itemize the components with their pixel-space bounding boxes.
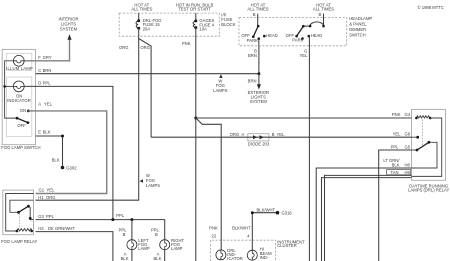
splice PPL bus to left fog lamp (130, 218, 133, 221)
splice on PNK wire (194, 117, 197, 120)
I/P fuse block (dashed box) (119, 13, 219, 36)
svg-text:PNK: PNK (182, 41, 191, 46)
svg-text:YEL: YEL (277, 132, 286, 137)
svg-text:TEST OR START: TEST OR START (178, 7, 211, 12)
ground G302 (61, 166, 78, 171)
svg-text:LAMP: LAMP (171, 246, 183, 251)
svg-text:PNK: PNK (392, 112, 401, 117)
instrument cluster (dashed box, cut at bottom edge) (210, 239, 305, 261)
wire PNK branch to instrument cluster pin 22 (196, 118, 221, 240)
svg-text:ORG: ORG (140, 45, 150, 50)
wire LT GRN/BLK H8 from DRL relay down page (316, 158, 411, 261)
label HOT AT ALL TIMES (dimmer left feed) (247, 2, 268, 11)
svg-text:HEAD: HEAD (311, 33, 323, 38)
svg-text:CLUSTER: CLUSTER (277, 243, 297, 248)
fuse DRL-FOG FUSE 15 20A (136, 13, 162, 32)
wire feed stub into dimmer switch right, pin B (319, 12, 324, 26)
svg-text:ICATOR: ICATOR (227, 256, 242, 261)
dimmer switch left section: OFF/PARK/HEAD contacts and arm (241, 25, 277, 43)
svg-text:BRN: BRN (43, 68, 52, 73)
svg-text:TAN: TAN (390, 170, 398, 175)
svg-text:PPL: PPL (43, 81, 52, 86)
svg-text:BLK/WHT: BLK/WHT (232, 226, 251, 231)
dimmer switch right section: OFF/PARK/HEAD contacts, arm and crossover loop (286, 22, 325, 43)
label HOT AT ALL TIMES (dimmer right feed) (313, 2, 334, 11)
svg-text:F: F (38, 55, 41, 60)
svg-text:B: B (272, 132, 275, 137)
left fog lamp (127, 238, 150, 251)
wire PPL G5 from DRL relay down page (379, 144, 412, 261)
svg-text:YEL: YEL (47, 188, 56, 193)
svg-text:10A: 10A (199, 27, 207, 32)
svg-text:B: B (123, 232, 126, 237)
fog lamp relay switch contacts (17, 205, 32, 220)
wire feed stub into dimmer switch left, pin B (253, 12, 258, 26)
svg-text:22: 22 (212, 234, 217, 239)
svg-text:G8: G8 (405, 131, 411, 136)
svg-text:HEADLAMP: HEADLAMP (349, 16, 372, 21)
wire H3 DK GRN/WHT from fog relay down page (36, 226, 113, 261)
svg-text:PPL: PPL (46, 214, 55, 219)
wire G3 PPL bus from fog relay to fog lamps (36, 213, 165, 239)
svg-text:C: C (38, 68, 41, 73)
svg-text:OFF: OFF (17, 123, 26, 128)
junction splice on BRN wire (257, 72, 260, 75)
svg-text:20A: 20A (143, 27, 151, 32)
svg-text:B: B (319, 12, 322, 17)
svg-text:PARK: PARK (247, 38, 258, 43)
illumination lamp (fog switch) (6, 55, 33, 71)
svg-text:ORG: ORG (119, 45, 129, 50)
svg-text:BLK/WHT: BLK/WHT (257, 207, 276, 212)
svg-text:LAMPS (DRL) RELAY: LAMPS (DRL) RELAY (408, 188, 449, 193)
svg-text:BRN: BRN (248, 53, 257, 58)
svg-text:ALL TIMES: ALL TIMES (247, 7, 268, 12)
arrow down to EXTERIOR LIGHTS SYSTEM with BRN label (248, 74, 269, 105)
arrow to INTERIOR LIGHTS SYSTEM (58, 17, 78, 40)
wire BLK below left fog lamp (121, 250, 132, 261)
svg-text:G3: G3 (38, 214, 44, 219)
label HEADLAMP & PANEL DIMMER SWITCH (349, 16, 372, 38)
svg-text:PARK: PARK (292, 38, 303, 43)
svg-text:G4: G4 (405, 112, 411, 117)
svg-text:© 1998 MTTC: © 1998 MTTC (418, 5, 444, 10)
svg-text:SYSTEM: SYSTEM (60, 27, 78, 32)
wire PPL drop to left fog lamp pin B (119, 220, 132, 240)
svg-text:BLK: BLK (392, 162, 400, 167)
svg-text:LAMPS: LAMPS (213, 88, 227, 93)
svg-text:LAMPS: LAMPS (146, 183, 160, 188)
svg-text:B: B (155, 232, 158, 237)
wire BRN from dimmer switch park output (248, 39, 259, 74)
ON indicator lamp (fog switch) (7, 81, 31, 103)
svg-text:DK GRN/WHT: DK GRN/WHT (48, 226, 75, 231)
DRL relay switch contacts (416, 136, 431, 152)
svg-text:IND-: IND- (260, 255, 269, 260)
svg-text:ORG: ORG (46, 195, 56, 200)
wire G YEL from dimmer head output down page (299, 36, 309, 261)
splice PPL bus to indicator branch (111, 218, 114, 221)
wire ORG to diode A (151, 136, 269, 138)
svg-text:H1: H1 (38, 195, 44, 200)
wire PNK from GAGES fuse down page (182, 28, 196, 261)
wire F GRY from fog switch to interior lights (24, 39, 69, 61)
svg-text:G302: G302 (66, 166, 77, 171)
wire PNK to DRL relay G4 (196, 112, 412, 118)
svg-text:HEAD: HEAD (266, 33, 278, 38)
ground G316 label (282, 211, 293, 216)
copyright (418, 5, 444, 10)
svg-text:INDICATOR: INDICATOR (7, 98, 31, 103)
label HOT AT ALL TIMES (left) (131, 2, 152, 11)
svg-text:BLK: BLK (153, 256, 161, 261)
annotation arrow W FOG LAMPS (left at ORG wire) (140, 173, 161, 188)
svg-text:BLOCK: BLOCK (221, 22, 235, 27)
svg-text:FOG LAMP SWITCH: FOG LAMP SWITCH (1, 145, 40, 150)
fog lamp switch box (1, 49, 40, 150)
svg-text:A: A (38, 101, 41, 106)
HI BEAM indicator lamp (cluster) (247, 240, 272, 260)
annotation arrow W FOG LAMPS (up at BRN wire) (213, 74, 227, 93)
svg-text:GRY: GRY (43, 55, 52, 60)
svg-text:SWITCH: SWITCH (349, 32, 366, 37)
fog switch internal bus wire (3, 61, 17, 118)
svg-text:PPL: PPL (116, 213, 125, 218)
svg-text:ORG: ORG (230, 132, 240, 137)
svg-text:DIODE 203: DIODE 203 (248, 141, 270, 146)
svg-text:G316: G316 (282, 211, 293, 216)
svg-text:G5: G5 (405, 144, 411, 149)
svg-text:D: D (38, 81, 41, 86)
wire E BLK from fog switch to ground G302 (36, 130, 65, 168)
svg-text:LAMP: LAMP (138, 246, 150, 251)
wire A YEL from fog switch to relay G1 (36, 101, 107, 193)
wire C BRN from fog switch to exterior lights junction (36, 68, 259, 74)
svg-text:& PANEL: & PANEL (349, 21, 367, 26)
DRL indicator lamp (cluster) (216, 240, 243, 261)
wire BLK below right fog lamp (153, 250, 164, 261)
svg-text:BLK: BLK (43, 130, 51, 135)
right fog lamp (160, 238, 185, 251)
svg-text:H3: H3 (38, 226, 44, 231)
fuse GAGES FUSE 4 10A (193, 13, 215, 32)
fog lamp relay internal wiring (6, 194, 34, 232)
wire ORG from fuse to fog relay H1 (36, 39, 139, 201)
DRL relay coil (415, 116, 431, 119)
label PPL B at right fog lamp (151, 228, 160, 238)
svg-text:YEL: YEL (44, 101, 53, 106)
svg-text:E: E (38, 130, 41, 135)
svg-text:BLK: BLK (121, 256, 129, 261)
svg-text:ON: ON (20, 108, 26, 113)
svg-text:PPL: PPL (391, 144, 400, 149)
svg-text:FOG LAMP RELAY: FOG LAMP RELAY (1, 239, 37, 244)
daytime running lamps (DRL) relay box (408, 109, 449, 192)
fog switch ON/OFF toggle (16, 108, 36, 128)
svg-text:PNK: PNK (209, 226, 218, 231)
svg-text:A: A (242, 132, 245, 137)
DRL relay internal wiring (412, 118, 442, 176)
svg-text:BLK: BLK (52, 158, 60, 163)
headlamp and panel dimmer switch (dashed box) (239, 18, 347, 46)
svg-text:ILLUM LAMP: ILLUM LAMP (6, 66, 33, 71)
label I/P FUSE BLOCK (221, 13, 235, 27)
wire D PPL from ON indicator to PPL splice (24, 81, 113, 220)
wire YEL from diode B to DRL relay G8 (269, 131, 412, 137)
svg-text:YEL: YEL (393, 131, 402, 136)
svg-text:G1: G1 (39, 188, 45, 193)
svg-text:H8: H8 (405, 162, 411, 167)
svg-text:H9: H9 (405, 170, 411, 175)
fog lamp relay box (1, 190, 37, 244)
svg-text:ALL TIMES: ALL TIMES (313, 7, 334, 12)
svg-text:ALL TIMES: ALL TIMES (131, 7, 152, 12)
svg-text:B: B (253, 12, 256, 17)
label HOT IN RUN, BULB TEST OR START (176, 2, 214, 11)
diode 203 (230, 132, 285, 146)
svg-text:YEL: YEL (299, 53, 308, 58)
wire ORG fuse output split (119, 28, 151, 137)
svg-text:BRN: BRN (248, 79, 257, 84)
wire TAN H9 (highlighted double line) from DRL relay down page (322, 170, 412, 261)
svg-text:SYSTEM: SYSTEM (250, 99, 268, 104)
fog lamp relay coil (16, 229, 33, 233)
svg-text:DIMMER: DIMMER (349, 27, 366, 32)
wire BLK/WHT from cluster pin 4 to ground G316 (232, 207, 279, 240)
